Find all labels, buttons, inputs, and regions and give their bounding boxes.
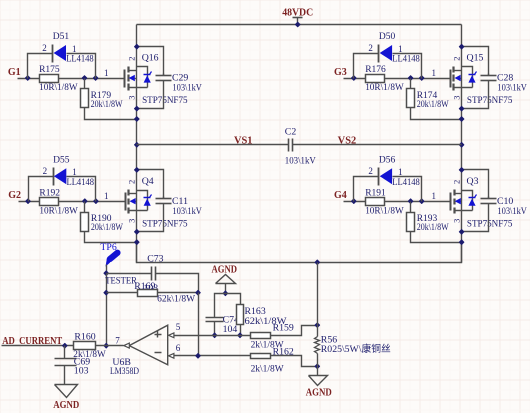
junction <box>315 323 320 328</box>
wire pin 6 <box>175 355 251 357</box>
svg-text:AGND: AGND <box>306 387 332 398</box>
svg-text:1: 1 <box>72 44 77 54</box>
resistor R163 <box>237 305 287 336</box>
svg-text:103\1kV: 103\1kV <box>497 84 527 94</box>
svg-text:2: 2 <box>451 180 461 184</box>
wire bridge bottom rail <box>137 243 462 263</box>
svg-text:C29: C29 <box>172 73 188 84</box>
svg-text:LL4148: LL4148 <box>66 55 94 65</box>
svg-text:1: 1 <box>432 68 437 78</box>
svg-text:7: 7 <box>115 336 120 346</box>
test point TP6 <box>100 242 121 267</box>
svg-text:104: 104 <box>223 324 238 335</box>
power 48VDC <box>282 7 313 24</box>
wire <box>2 345 74 347</box>
junction <box>352 199 357 204</box>
svg-text:1: 1 <box>72 167 77 177</box>
svg-text:VS1: VS1 <box>234 135 253 146</box>
svg-text:103\1kV: 103\1kV <box>172 207 202 217</box>
svg-text:AGND: AGND <box>53 400 79 411</box>
pin 1 <box>104 191 109 201</box>
junction <box>135 143 140 148</box>
svg-text:D51: D51 <box>53 32 70 42</box>
svg-text:10R\1/8W: 10R\1/8W <box>39 83 78 93</box>
wire <box>106 265 108 274</box>
svg-text:1: 1 <box>104 68 109 78</box>
svg-text:R159: R159 <box>273 322 294 333</box>
junction <box>459 44 464 49</box>
svg-text:LL4148: LL4148 <box>392 178 420 188</box>
svg-text:3: 3 <box>451 95 461 99</box>
transistor Q4 <box>126 176 188 230</box>
resistor R191 <box>365 188 404 216</box>
resistor R159 <box>251 322 294 350</box>
svg-text:62k\1/8W: 62k\1/8W <box>157 295 195 305</box>
transistor Q15 <box>451 53 513 106</box>
node G1 <box>8 67 21 78</box>
svg-text:LL4148: LL4148 <box>67 178 95 188</box>
svg-text:2: 2 <box>451 57 461 61</box>
svg-text:1: 1 <box>398 167 403 177</box>
body diode of Q3 <box>462 191 477 211</box>
svg-text:3: 3 <box>451 219 461 223</box>
svg-text:D55: D55 <box>53 155 70 165</box>
svg-text:3: 3 <box>127 95 137 99</box>
junction <box>135 106 140 111</box>
wire VS1 <box>137 144 289 146</box>
diode D56 <box>368 155 420 188</box>
wire <box>344 201 451 203</box>
wire right column upper <box>461 25 463 145</box>
wire pin 5 <box>175 335 251 337</box>
diode D51 <box>42 32 94 64</box>
pin 1 <box>432 191 437 201</box>
svg-text:C73: C73 <box>147 254 163 265</box>
pin 1 <box>104 68 109 78</box>
junction <box>238 333 243 338</box>
junction <box>459 106 464 111</box>
junction <box>295 22 300 27</box>
body diode of Q4 <box>137 191 152 211</box>
svg-text:48VDC: 48VDC <box>282 7 313 18</box>
resistor R169 <box>107 281 199 304</box>
svg-text:G4: G4 <box>334 190 347 201</box>
junction <box>196 354 201 359</box>
svg-text:20k\1/8W: 20k\1/8W <box>91 100 123 110</box>
wire <box>198 293 200 356</box>
junction <box>104 343 109 348</box>
junction <box>419 199 424 204</box>
wire <box>107 273 152 275</box>
resistor R160 <box>73 332 106 361</box>
svg-text:R176: R176 <box>365 65 386 75</box>
junction <box>459 117 464 122</box>
resistor R192 <box>39 188 78 216</box>
svg-text:2: 2 <box>43 166 48 176</box>
junction <box>196 290 201 295</box>
svg-text:2: 2 <box>368 43 373 53</box>
wire 48VDC rail <box>137 24 462 26</box>
wire <box>29 177 54 202</box>
svg-text:2: 2 <box>127 57 137 61</box>
node G4 <box>334 190 347 201</box>
wire <box>393 54 422 79</box>
svg-text:1: 1 <box>432 191 437 201</box>
svg-text:STP75NF75: STP75NF75 <box>142 218 188 229</box>
svg-text:C2: C2 <box>285 127 297 138</box>
wire <box>354 54 379 79</box>
junction <box>315 260 320 265</box>
svg-text:2k\1/8W: 2k\1/8W <box>251 365 284 375</box>
svg-text:2: 2 <box>42 43 47 53</box>
junction <box>135 44 140 49</box>
junction <box>135 117 140 122</box>
svg-text:2: 2 <box>127 180 137 184</box>
node G2 <box>8 190 21 201</box>
junction <box>104 290 109 295</box>
body diode of Q15 <box>462 67 477 88</box>
svg-text:VS2: VS2 <box>338 135 357 146</box>
svg-text:STP75NF75: STP75NF75 <box>467 95 513 106</box>
junction <box>408 76 413 81</box>
junction <box>212 333 217 338</box>
wire <box>96 345 124 347</box>
transistor Q3 <box>451 176 513 230</box>
resistor R190 <box>81 202 123 234</box>
wire <box>215 294 241 318</box>
resistor R162 <box>251 347 294 375</box>
wire <box>411 232 462 243</box>
resistor R193 <box>407 202 449 234</box>
svg-text:R56: R56 <box>321 334 337 345</box>
svg-text:D56: D56 <box>379 155 396 165</box>
wire <box>411 108 462 120</box>
wire <box>156 274 199 293</box>
svg-text:Q16: Q16 <box>142 53 159 64</box>
svg-text:STP75NF75: STP75NF75 <box>142 95 188 106</box>
svg-text:5: 5 <box>176 322 181 332</box>
junction <box>459 168 464 173</box>
junction <box>459 230 464 235</box>
diode D50 <box>368 32 420 64</box>
node AD_CURRENT <box>2 336 62 347</box>
capacitor C2 <box>285 127 316 167</box>
capacitor C10 <box>462 170 528 232</box>
capacitor C74 <box>206 314 240 335</box>
svg-text:C28: C28 <box>497 73 513 84</box>
svg-text:LL4148: LL4148 <box>392 55 420 65</box>
svg-text:Q3: Q3 <box>467 176 479 187</box>
op-amp U6B <box>110 322 181 377</box>
wire <box>354 177 379 202</box>
node VS2 <box>338 135 357 146</box>
svg-text:10R\1/8W: 10R\1/8W <box>365 206 404 216</box>
junction <box>83 199 88 204</box>
junction <box>94 199 99 204</box>
svg-text:20k\1/8W: 20k\1/8W <box>417 100 449 110</box>
svg-text:R169: R169 <box>134 281 155 292</box>
junction <box>315 364 320 369</box>
svg-text:103: 103 <box>74 366 89 377</box>
junction <box>135 168 140 173</box>
svg-text:2: 2 <box>368 166 373 176</box>
svg-text:10R\1/8W: 10R\1/8W <box>39 206 78 216</box>
junction <box>26 199 31 204</box>
pin 1 <box>432 68 437 78</box>
node G3 <box>334 67 347 78</box>
svg-text:3: 3 <box>127 219 137 223</box>
svg-text:1: 1 <box>398 44 403 54</box>
resistor R174 <box>407 79 449 111</box>
svg-text:R163: R163 <box>245 306 266 317</box>
junction <box>82 76 87 81</box>
svg-text:R175: R175 <box>39 65 60 75</box>
junction <box>459 143 464 148</box>
wire left column lower <box>136 145 138 263</box>
junction <box>63 343 68 348</box>
svg-text:LM358D: LM358D <box>110 366 139 377</box>
junction <box>135 240 140 245</box>
wire <box>344 78 451 80</box>
svg-text:103\1kV: 103\1kV <box>172 84 202 94</box>
wire <box>19 201 126 203</box>
svg-text:G1: G1 <box>8 67 21 78</box>
svg-text:C11: C11 <box>172 196 188 207</box>
capacitor C73 <box>144 254 164 295</box>
svg-text:STP75NF75: STP75NF75 <box>467 218 513 229</box>
svg-text:103\1kV: 103\1kV <box>285 157 316 167</box>
junction <box>352 76 357 81</box>
wire <box>18 78 125 80</box>
resistor R56 <box>315 263 391 376</box>
svg-text:R191: R191 <box>365 188 386 198</box>
body diode of Q16 <box>137 67 152 88</box>
svg-text:G2: G2 <box>8 190 21 201</box>
svg-text:1: 1 <box>104 191 109 201</box>
svg-text:R192: R192 <box>39 188 60 198</box>
node TESTER <box>105 275 137 286</box>
wire left column upper <box>136 25 138 145</box>
wire <box>85 232 137 243</box>
resistor R179 <box>81 79 123 111</box>
wire <box>393 177 422 202</box>
capacitor C69 <box>55 346 91 385</box>
svg-text:R160: R160 <box>74 332 95 343</box>
wire <box>85 108 137 120</box>
diode D55 <box>43 155 95 188</box>
junction <box>223 291 228 296</box>
transistor Q16 <box>125 53 188 106</box>
wire TESTER <box>106 274 108 346</box>
wire right column lower <box>461 145 463 263</box>
svg-text:G3: G3 <box>334 67 347 78</box>
wire <box>271 356 318 367</box>
capacitor C29 <box>137 47 203 109</box>
junction <box>25 76 30 81</box>
svg-text:20k\1/8W: 20k\1/8W <box>91 223 123 233</box>
capacitor C28 <box>462 47 528 109</box>
junction <box>135 230 140 235</box>
junction <box>408 199 413 204</box>
wire <box>28 54 53 79</box>
svg-text:Q15: Q15 <box>467 53 484 64</box>
wire <box>271 326 318 336</box>
junction <box>419 76 424 81</box>
junction <box>459 240 464 245</box>
ground AGND <box>212 265 238 294</box>
svg-text:D50: D50 <box>379 32 396 42</box>
node VS1 <box>234 135 253 146</box>
wire VS2 <box>293 144 462 146</box>
resistor R176 <box>365 65 404 93</box>
svg-text:103\1kV: 103\1kV <box>497 207 527 217</box>
junction <box>104 271 109 276</box>
svg-text:20k\1/8W: 20k\1/8W <box>417 223 449 233</box>
wire <box>67 54 96 79</box>
ground AGND <box>53 385 79 411</box>
svg-text:TESTER: TESTER <box>105 275 137 286</box>
capacitor C11 <box>137 170 203 232</box>
ground AGND <box>306 376 332 399</box>
svg-text:R025\5W\康铜丝: R025\5W\康铜丝 <box>321 343 391 355</box>
svg-text:10R\1/8W: 10R\1/8W <box>365 83 404 93</box>
junction <box>93 76 98 81</box>
svg-text:C10: C10 <box>497 196 513 207</box>
svg-text:Q4: Q4 <box>142 176 154 187</box>
wire <box>67 177 96 202</box>
resistor R175 <box>39 65 78 93</box>
svg-text:AGND: AGND <box>212 265 238 276</box>
svg-text:6: 6 <box>176 343 181 353</box>
